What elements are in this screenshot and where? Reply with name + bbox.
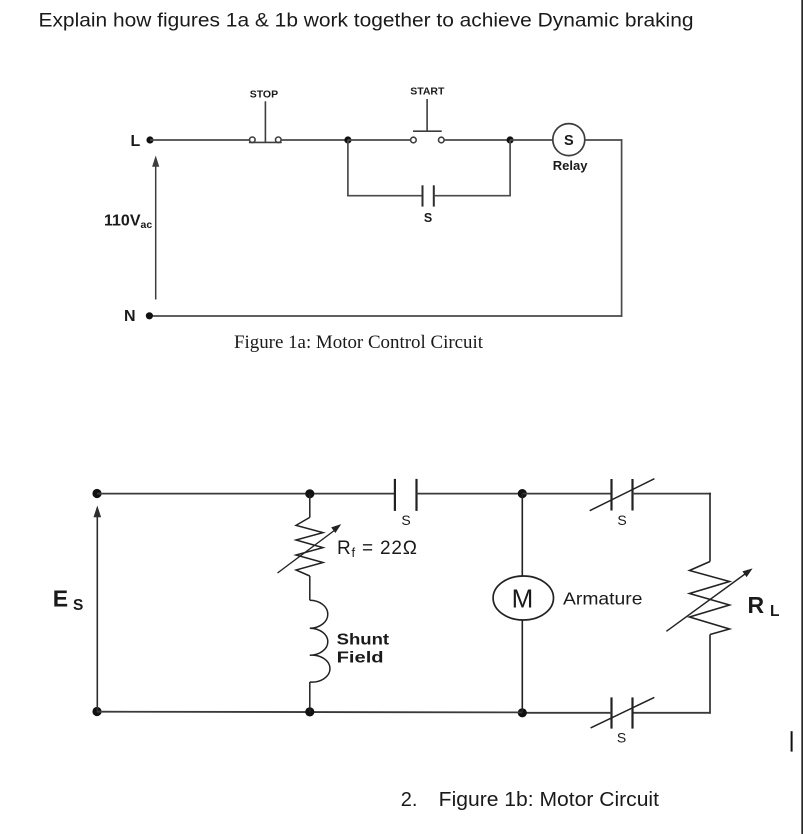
svg-text:M: M	[512, 583, 534, 613]
rheostat RL zigzag	[690, 562, 730, 635]
junction node A	[344, 136, 351, 143]
junction dot armature bottom	[518, 708, 527, 717]
wire node A to START	[348, 139, 411, 141]
slash of bottom NC contact	[591, 697, 655, 728]
svg-text:Figure 1a: Motor Control Circu: Figure 1a: Motor Control Circuit	[234, 332, 484, 353]
wire STOP to node A	[281, 139, 348, 141]
contact S-bar bottom (NC)	[612, 697, 633, 728]
junction dot field branch top	[305, 489, 314, 498]
contact S (seal-in)	[423, 185, 434, 206]
motor M armature	[493, 576, 553, 620]
svg-text:START: START	[410, 86, 445, 98]
svg-text:S: S	[617, 729, 626, 745]
svg-text:STOP: STOP	[250, 89, 278, 101]
svg-text:Shunt: Shunt	[337, 632, 390, 649]
svg-text:S: S	[424, 211, 432, 225]
svg-text:S: S	[564, 133, 574, 149]
junction dot armature top	[518, 489, 527, 498]
svg-text:Field: Field	[337, 649, 384, 666]
svg-text:S: S	[73, 597, 83, 614]
node N dot	[146, 312, 153, 319]
rheostat Rf arrow	[278, 530, 336, 573]
rheostat Rf lead	[309, 494, 311, 518]
wire seal-in branch left horizontal	[347, 195, 422, 197]
svg-text:S: S	[401, 512, 410, 528]
svg-text:Figure 1b: Motor Circuit: Figure 1b: Motor Circuit	[439, 789, 660, 811]
node L dot	[146, 136, 153, 143]
svg-text:L: L	[770, 603, 779, 620]
svg-text:R: R	[748, 592, 765, 618]
svg-text:Explain how figures 1a & 1b wo: Explain how figures 1a & 1b work togethe…	[39, 10, 694, 32]
source Es arrow	[96, 516, 98, 712]
svg-text:2.: 2.	[401, 789, 418, 811]
rheostat RL arrow	[666, 574, 745, 631]
source 110Vac arrow	[155, 165, 157, 300]
slash of top NC contact	[590, 479, 655, 511]
svg-text:E: E	[53, 585, 68, 611]
wire N horizontal	[149, 315, 622, 317]
wire L to STOP	[150, 139, 250, 141]
svg-text:Relay: Relay	[553, 158, 588, 173]
wire bottom middle segment	[522, 712, 611, 714]
wire NC contact to right corner	[633, 493, 711, 495]
text cursor mark	[791, 731, 793, 751]
wire START to node B	[444, 139, 510, 141]
wire armature lower lead	[521, 620, 523, 713]
relay coil S	[553, 124, 585, 156]
wire armature node to NC contact	[522, 493, 611, 495]
wire armature upper lead	[521, 494, 523, 576]
page right border	[801, 0, 803, 834]
inductor shunt field coil	[310, 600, 330, 682]
rheostat Rf zigzag	[296, 517, 323, 576]
wire right vertical	[621, 139, 623, 317]
wire bottom right segment	[633, 712, 711, 714]
wire right vertical lower	[709, 635, 711, 714]
wire bottom left segment	[97, 711, 522, 714]
junction dot field branch bottom	[305, 707, 314, 716]
wire relay to right corner	[585, 139, 623, 141]
contact S-bar top right (NC)	[612, 479, 633, 511]
wire node B to relay coil	[510, 139, 553, 141]
contact S (field, NO)	[395, 479, 417, 511]
inductor shunt field lower lead	[309, 682, 311, 712]
svg-text:Rf = 22Ω: Rf = 22Ω	[337, 538, 418, 560]
svg-text:N: N	[124, 308, 136, 325]
wire S contact to armature node	[417, 493, 523, 495]
wire top left segment	[97, 493, 395, 495]
wire seal-in branch left vertical	[347, 140, 349, 197]
inductor shunt field lead	[309, 576, 311, 600]
wire seal-in branch right horizontal	[434, 195, 511, 197]
node bottom-left dot	[92, 707, 101, 716]
svg-text:Armature: Armature	[563, 588, 643, 608]
svg-text:S: S	[617, 512, 626, 528]
wire seal-in branch right vertical	[509, 140, 511, 196]
pushbutton START (NO)	[411, 99, 445, 143]
wire right vertical upper	[709, 493, 711, 562]
junction node B	[507, 136, 514, 143]
svg-text:L: L	[131, 133, 141, 150]
pushbutton STOP (NC)	[249, 101, 282, 142]
node top-left dot	[92, 489, 101, 498]
